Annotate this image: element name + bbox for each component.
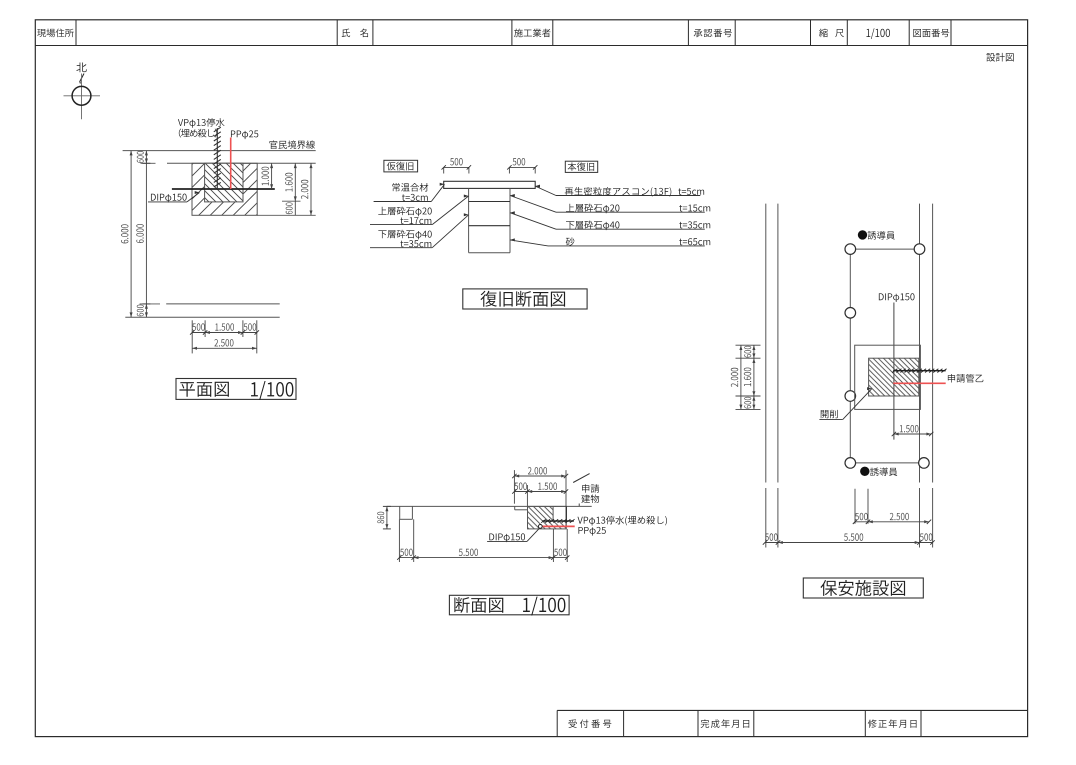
hoan: road edge lines right pair xyxy=(919,204,921,483)
plan: bottom dim row 500 / 1.500 / 500 xyxy=(192,332,257,334)
danmen: step below ground at block left xyxy=(514,506,516,509)
fukkyuu: left label 下層砕石φ40 t=35cm xyxy=(378,230,431,240)
fukkyuu: surface slab rectangle xyxy=(444,181,536,188)
header label 縮尺 xyxy=(819,29,844,38)
hoan: label 申請管乙 xyxy=(948,374,984,383)
danmen: title box 断面図 1/100 xyxy=(449,595,569,615)
hoan: DIP pipe vertical line xyxy=(893,303,895,440)
plan: bottom road line 1 xyxy=(140,303,160,305)
plan: label DIPφ150 with underline and leader xyxy=(151,194,187,203)
header label 承認番号 xyxy=(694,29,732,37)
plan: dim label 6.000 inner xyxy=(136,224,143,243)
danmen: hatched restoration block xyxy=(528,506,567,529)
title block header cell dividers xyxy=(75,20,77,46)
danmen: dim extension verticals xyxy=(513,470,515,504)
hoan: dim 500/2.500 extensions xyxy=(854,489,856,524)
fukkyuu: right 500 dim xyxy=(509,166,535,168)
hoan: title box 保安施設図 xyxy=(803,578,923,598)
danmen: bottom dim extensions xyxy=(398,519,400,562)
plan: label VPφ13停水 xyxy=(178,118,225,128)
header value 1/100 xyxy=(866,28,890,39)
title block header row bottom line xyxy=(35,45,1027,47)
plan: right extension line at y=201.2 xyxy=(282,200,301,202)
header label 図面番号 xyxy=(913,29,949,37)
plan: right dim 1.600 xyxy=(294,163,296,201)
north symbol label 北 xyxy=(76,62,86,72)
north symbol circle xyxy=(72,86,91,105)
danmen: top dim 2.000 xyxy=(514,475,566,477)
header label 現場住所 xyxy=(37,29,74,38)
plan: left dimension line inner (600/6.000/600) xyxy=(145,151,147,318)
danmen: label VPφ13停水（埋め殺し） xyxy=(578,516,667,526)
plan: right dim 2.000 xyxy=(310,163,312,215)
fukkyuu: title box 復旧断面図 xyxy=(463,289,587,309)
danmen: label PPφ25 xyxy=(578,527,605,536)
hoan: open-cut outer rectangle xyxy=(855,345,921,409)
fukkyuu: trench column sides xyxy=(468,188,470,252)
fukkyuu: right label 砂 t=65cm xyxy=(566,237,575,245)
sheet type label 設計図 xyxy=(986,53,1013,62)
fukkyuu: boxed label 仮復旧 xyxy=(384,160,418,172)
hoan: guard zone left line xyxy=(849,249,851,463)
plan: outer excavation block with hatch xyxy=(192,163,257,215)
plan: left dimension line 6.000 (outer) xyxy=(130,151,132,318)
plan: label 官民境界線 xyxy=(269,140,315,149)
fukkyuu: left label 上層砕石φ20 t=17cm xyxy=(378,207,431,217)
plan: bottom road line 2 xyxy=(125,316,279,318)
plan: right dim 1.000 xyxy=(271,163,273,189)
hoan: top guide person ●誘導員 xyxy=(858,231,866,239)
north symbol horizontal axis xyxy=(64,95,101,97)
danmen: bottom dim row 500 / 5.500 / 500 xyxy=(399,557,567,559)
hoan: applied pipe hatched line xyxy=(893,370,946,372)
hoan: label DIPφ150 xyxy=(879,293,915,302)
plan: dim label 600 bottom xyxy=(137,305,144,317)
hoan: left dim ticks xyxy=(736,344,761,346)
hoan: guard zone bottom line xyxy=(850,462,924,464)
danmen: VP pipe hatched line xyxy=(543,520,574,522)
fukkyuu: trench layer line 1 xyxy=(469,201,510,203)
header label 氏名 xyxy=(342,29,368,38)
hoan: left dim 600/1.600/600 (inner) xyxy=(753,345,755,409)
fukkyuu: right label 下層砕石φ40 t=35cm xyxy=(566,221,619,231)
plan: boundary line 官民境界線 (top road edge) xyxy=(123,150,316,152)
fukkyuu: trench bottom line xyxy=(469,252,510,254)
fukkyuu: right label 上層砕石φ20 t=15cm xyxy=(566,204,619,214)
plan: bottom dim extension lines xyxy=(191,320,193,353)
bottom table cell dividers xyxy=(623,710,625,736)
plan: dim label 6.000 outer xyxy=(121,224,128,243)
fukkyuu: trench layer line 2 xyxy=(469,225,510,227)
hoan: bottom dim row 500 / 5.500 / 500 xyxy=(765,542,933,544)
plan: label （埋め殺し） xyxy=(179,129,217,138)
hoan: dim 1.500 xyxy=(894,433,931,435)
danmen: label DIPφ150 with underline + leader xyxy=(489,533,525,542)
header label 施工業者 xyxy=(514,29,550,38)
danmen: 申請建物 corner slash xyxy=(573,474,589,483)
danmen: ground line xyxy=(387,505,592,507)
fukkyuu: right label 再生密粒度アスコン(13F) t=5cm xyxy=(565,187,672,197)
plan: label PPφ25 xyxy=(231,130,258,139)
danmen: label 申請建物 (two lines) xyxy=(582,484,599,493)
north symbol vertical axis xyxy=(81,74,83,120)
hoan: road edge lines left pair xyxy=(765,204,767,483)
plan: right dim 600 xyxy=(294,201,296,215)
danmen: left gutter notch xyxy=(399,506,401,519)
hoan: corner cones (open circles) xyxy=(845,244,856,255)
plan: right extension line at y=215.3 (block bottom level) xyxy=(257,214,316,216)
plan: DIP pipe line (horizontal, thick) xyxy=(172,188,275,190)
bottom table left edge xyxy=(556,710,558,736)
bottom table top line xyxy=(557,709,1027,711)
fukkyuu: boxed label 本復旧 xyxy=(565,161,597,172)
hoan: hatched work pit xyxy=(869,358,919,396)
hoan: guard zone top line xyxy=(850,248,919,250)
north symbol arrow stroke xyxy=(80,74,84,84)
hoan: dim row 500 / 2.500 xyxy=(855,521,929,523)
bottom table label 完成年月日 xyxy=(701,719,750,728)
danmen: dim row 500 / 1.500 xyxy=(514,491,566,493)
plan: PP pipe red line (vertical) xyxy=(230,138,232,190)
hoan: left dim 2.000 (outer) xyxy=(740,345,742,409)
hoan: red application line xyxy=(893,382,946,384)
danmen: PP pipe red line xyxy=(542,525,575,527)
plan: dim label 600 top xyxy=(137,151,144,163)
hoan: bottom guide person ●誘導員 xyxy=(861,467,869,475)
plan: title box 平面図 1/100 xyxy=(176,379,296,400)
fukkyuu: left 500 dim xyxy=(444,166,469,168)
hoan: label 開削 with underline and leader xyxy=(821,410,838,419)
fukkyuu: left label 常温合材 t=3cm xyxy=(392,183,428,192)
bottom table label 修正年月日 xyxy=(868,719,917,728)
plan: inner restoration block with dense hatch xyxy=(205,163,243,202)
danmen: building leader vertical xyxy=(578,504,580,507)
bottom table label 受付番号 xyxy=(569,719,612,728)
plan: VP pipe vertical symbol with hatch ticks xyxy=(216,128,218,189)
danmen: left dim 860 xyxy=(386,506,388,529)
danmen: DIP pipe end circle xyxy=(538,525,542,529)
plan: bottom dim row 2.500 xyxy=(192,347,257,349)
plan: second road line xyxy=(141,162,156,164)
